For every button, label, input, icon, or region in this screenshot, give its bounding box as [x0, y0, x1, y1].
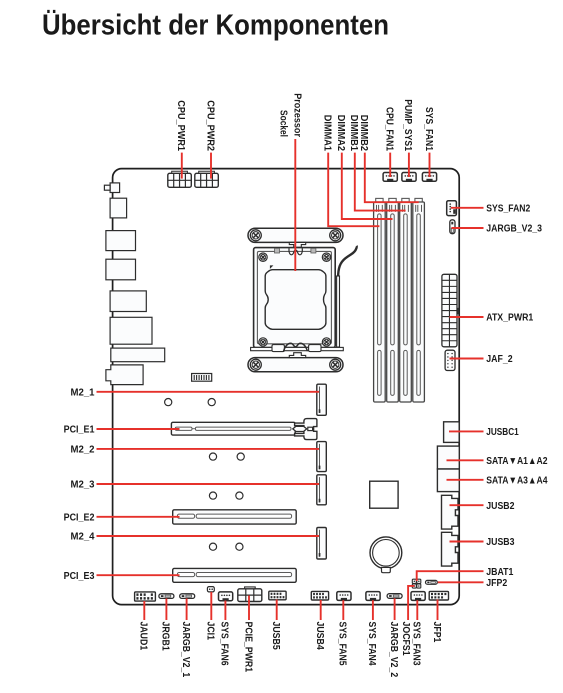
- svg-text:DIMMA2: DIMMA2: [335, 115, 346, 151]
- leader M2_2: [97, 448, 320, 450]
- fan header SYS_FAN1: [422, 173, 436, 182]
- fan header SYS_FAN3: [411, 592, 425, 601]
- leader M2_4: [97, 535, 320, 537]
- cpu IHS plate: [265, 270, 326, 330]
- svg-text:DIMMB1: DIMMB1: [348, 115, 359, 151]
- leader SYS_FAN1: [429, 153, 431, 177]
- io port 5: [110, 291, 146, 312]
- svg-text:CPU_PWR2: CPU_PWR2: [204, 100, 215, 151]
- svg-text:CPU_PWR1: CPU_PWR1: [175, 100, 186, 151]
- svg-text:M2_2: M2_2: [71, 445, 95, 456]
- header JFP2: [426, 580, 438, 584]
- svg-text:PCI_E2: PCI_E2: [64, 512, 95, 523]
- socket feet: [272, 345, 284, 352]
- header below socket: [192, 374, 212, 382]
- io port 3: [106, 231, 136, 251]
- cpu socket inner frame: [257, 251, 331, 343]
- svg-text:JUSB3: JUSB3: [486, 537, 514, 548]
- leader ATX_PWR1: [450, 316, 484, 318]
- pin1 triangle: [270, 265, 274, 269]
- fan header SYS_FAN2 (vertical): [447, 201, 457, 216]
- svg-text:M2_3: M2_3: [71, 480, 95, 491]
- leader JAUD1: [143, 601, 145, 620]
- connector PCIE_PWR1: [238, 587, 262, 602]
- svg-text:JCI1: JCI1: [205, 622, 216, 641]
- io port 4: [106, 259, 136, 280]
- cpu socket outer frame: [254, 248, 336, 348]
- leader JUSB2: [450, 504, 484, 506]
- mounting hole 4b: [236, 543, 243, 550]
- svg-text:JRGB1: JRGB1: [160, 622, 171, 651]
- svg-text:DIMMA1: DIMMA1: [322, 115, 333, 151]
- M.2 slot connector M2_3: [317, 475, 327, 505]
- header JARGB_V2_1: [180, 594, 195, 599]
- svg-text:PCI_E3: PCI_E3: [64, 571, 95, 582]
- leader DIMMA2: [342, 153, 393, 219]
- socket top clip: [275, 248, 316, 255]
- leader JCI1: [210, 592, 212, 620]
- io port 7: [111, 348, 165, 362]
- svg-text:ATX_PWR1: ATX_PWR1: [486, 313, 533, 324]
- leader JUSB4: [320, 600, 322, 620]
- svg-text:JUSBC1: JUSBC1: [486, 427, 519, 438]
- DIMM slot DIMMA2: [387, 198, 399, 402]
- svg-text:CPU_FAN1: CPU_FAN1: [384, 107, 395, 151]
- mounting hole 2b: [237, 453, 244, 460]
- leader PCIE_PWR1: [248, 596, 250, 621]
- header JCI1: [207, 587, 214, 592]
- leader JFP2: [438, 581, 484, 583]
- PCI_E1 latch: [293, 419, 317, 440]
- leader JRGB1: [165, 598, 167, 620]
- connector CPU_PWR2: [195, 171, 219, 187]
- leader SYS_FAN4: [372, 600, 374, 620]
- leader CPU_FAN1: [389, 153, 391, 177]
- svg-text:Prozessor: Prozessor: [292, 93, 303, 137]
- leader JARGB_V2_3: [452, 227, 484, 229]
- mounting hole 3b: [236, 492, 243, 499]
- battery holder: [370, 537, 402, 573]
- cpu socket top bracket: [248, 228, 343, 247]
- svg-text:M2_4: M2_4: [71, 532, 95, 543]
- svg-text:SYS_FAN1: SYS_FAN1: [423, 107, 434, 151]
- svg-text:Sockel: Sockel: [277, 110, 288, 137]
- mounting hole 1b: [208, 399, 215, 406]
- leader JUSB3: [450, 541, 484, 543]
- leader SYS_FAN6: [224, 601, 226, 621]
- connector JUSB3: [442, 532, 459, 566]
- io nub block: [110, 183, 120, 193]
- header JRGB1: [159, 594, 174, 599]
- connector SATA A1 A2: [437, 446, 459, 469]
- leader JOCFS1: [408, 586, 414, 620]
- header JARGB_V2_2: [387, 594, 402, 599]
- leader JUSBC1: [449, 430, 484, 432]
- fan header SYS_FAN5: [337, 592, 351, 601]
- leader DIMMB2: [365, 153, 419, 203]
- leader PCI_E1: [97, 428, 180, 430]
- svg-text:JAUD1: JAUD1: [138, 622, 149, 651]
- leader JAF_2: [450, 358, 484, 360]
- connector JUSB2: [442, 495, 459, 529]
- leader SYS_FAN5: [342, 600, 344, 620]
- socket bottom rail: [251, 347, 344, 350]
- leader JARGB_V2_1: [186, 598, 188, 620]
- svg-text:JARGB_V2_2: JARGB_V2_2: [388, 622, 399, 678]
- leader SYS_FAN3: [416, 600, 418, 620]
- leader CPU_PWR1: [181, 153, 183, 179]
- leader PCI_E3: [97, 574, 180, 576]
- io port 6: [110, 317, 152, 344]
- DIMM slot DIMMB2: [413, 198, 425, 402]
- connector SATA A3 A4: [437, 469, 459, 492]
- header JARGB_V2_3 (vertical slim): [450, 220, 455, 234]
- svg-text:SYS_FAN5: SYS_FAN5: [337, 622, 348, 666]
- leader M2_3: [97, 483, 320, 485]
- connector JUSBC1: [444, 422, 460, 443]
- socket corner screws: [259, 253, 331, 346]
- chipset chip: [370, 481, 398, 508]
- leader SATA A1 A2: [447, 459, 484, 461]
- fan header SYS_FAN6: [219, 592, 233, 601]
- M.2 slot connector M2_4: [317, 528, 327, 560]
- fan header SYS_FAN4: [366, 592, 380, 601]
- leader PUMP_SYS1: [408, 153, 410, 177]
- svg-text:PUMP_SYS1: PUMP_SYS1: [402, 99, 413, 151]
- leader DIMMA1: [328, 153, 379, 227]
- svg-text:JUSB4: JUSB4: [314, 622, 325, 650]
- svg-text:SYS_FAN4: SYS_FAN4: [366, 622, 377, 666]
- svg-text:SYS_FAN2: SYS_FAN2: [486, 203, 530, 214]
- leader SYS_FAN2: [451, 207, 484, 209]
- svg-text:JFP2: JFP2: [486, 578, 507, 589]
- svg-text:DIMMB2: DIMMB2: [358, 115, 369, 151]
- leader JARGB_V2_2: [394, 598, 396, 620]
- svg-text:JUSB5: JUSB5: [270, 622, 281, 650]
- svg-text:PCI_E1: PCI_E1: [64, 425, 95, 436]
- DIMM slot DIMMB1: [400, 198, 412, 402]
- socket lever: [337, 246, 357, 347]
- fan header CPU_FAN1: [383, 173, 397, 182]
- fan header PUMP_SYS1: [402, 173, 416, 182]
- socket spring wave: [284, 343, 308, 351]
- mounting hole 4a: [209, 543, 216, 550]
- header JUSB5: [269, 591, 286, 600]
- header JAUD1: [135, 592, 156, 601]
- svg-text:JUSB2: JUSB2: [486, 501, 514, 512]
- svg-text:Übersicht der Komponenten: Übersicht der Komponenten: [42, 9, 389, 42]
- svg-text:SYS_FAN3: SYS_FAN3: [411, 622, 422, 666]
- header JUSB4: [311, 591, 328, 600]
- M.2 slot connector M2_1: [317, 384, 327, 415]
- svg-text:SATA▼A1▲A2: SATA▼A1▲A2: [486, 456, 547, 467]
- connector ATX_PWR1: [442, 274, 459, 347]
- leader M2_1: [97, 391, 320, 393]
- io port 8: [106, 365, 143, 385]
- M.2 slot connector M2_2: [317, 442, 327, 472]
- leader JBAT1: [417, 571, 484, 581]
- cpu socket bottom bracket: [248, 353, 343, 372]
- leader JFP1: [437, 600, 439, 621]
- svg-text:M2_1: M2_1: [71, 387, 95, 398]
- leader JUSB5: [276, 600, 278, 621]
- header JAF_2: [445, 350, 455, 370]
- leader Prozessor Sockel: [294, 139, 296, 271]
- PCIe slot PCI_E1: [171, 422, 295, 435]
- svg-text:JOCFS1: JOCFS1: [400, 622, 411, 656]
- svg-text:JARGB_V2_3: JARGB_V2_3: [486, 224, 542, 235]
- mounting hole 1a: [165, 399, 172, 406]
- svg-text:PCIE_PWR1: PCIE_PWR1: [242, 622, 253, 673]
- leader DIMMB1: [355, 153, 406, 211]
- svg-text:JFP1: JFP1: [431, 622, 442, 643]
- leader PCI_E2: [97, 516, 180, 518]
- connector CPU_PWR1: [168, 171, 192, 187]
- PCIe slot PCI_E2: [173, 510, 297, 524]
- PCIe slot PCI_E3: [173, 568, 297, 582]
- svg-text:JBAT1: JBAT1: [486, 567, 513, 578]
- mounting hole 2a: [209, 453, 216, 460]
- header JBAT1 JOCFS1 pins: [412, 579, 421, 588]
- svg-text:SYS_FAN6: SYS_FAN6: [219, 622, 230, 666]
- svg-text:JAF_2: JAF_2: [486, 354, 513, 365]
- header JFP1: [429, 591, 448, 600]
- mounting hole 3a: [209, 492, 216, 499]
- motherboard outline: [113, 169, 460, 605]
- leader SATA A3 A4: [447, 479, 484, 481]
- svg-text:SATA▼A3▲A4: SATA▼A3▲A4: [486, 475, 547, 486]
- DIMM slot DIMMA1: [374, 198, 386, 402]
- io port 2: [110, 198, 127, 218]
- leader CPU_PWR2: [210, 153, 212, 179]
- svg-text:JARGB_V2_1: JARGB_V2_1: [180, 622, 191, 678]
